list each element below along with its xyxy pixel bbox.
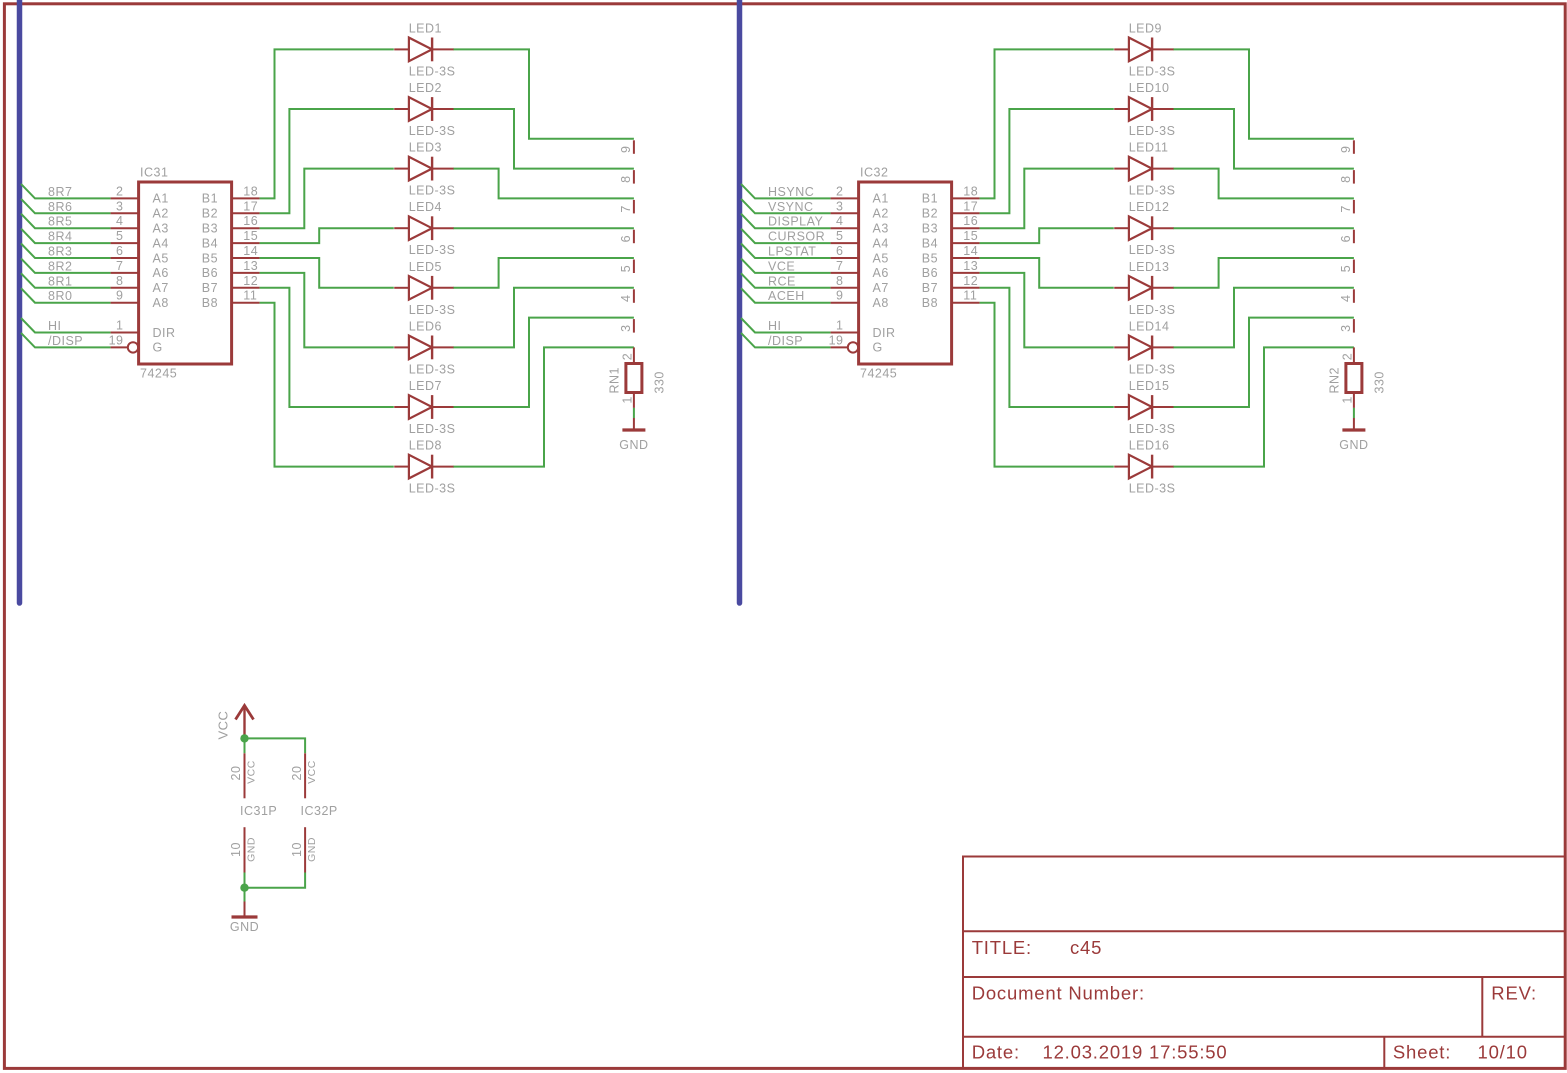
wire net 8R1 from bus to IC31 [21, 273, 111, 288]
svg-text:10/10: 10/10 [1478, 1042, 1528, 1063]
LED LED6 (LED-3S) [394, 336, 454, 360]
svg-text:LED-3S: LED-3S [409, 124, 456, 138]
svg-text:1: 1 [1341, 396, 1355, 403]
svg-text:9: 9 [116, 289, 123, 303]
svg-text:13: 13 [963, 259, 978, 273]
wire LED3 cathode to RN1 pin 7 [454, 169, 634, 199]
LED LED11 (LED-3S) [1114, 157, 1174, 181]
svg-text:14: 14 [963, 244, 978, 258]
svg-text:VCC: VCC [245, 760, 257, 784]
wire LED6 cathode to RN1 pin 4 [454, 288, 634, 348]
wire LED10 cathode to RN2 pin 8 [1174, 109, 1354, 169]
svg-text:GND: GND [230, 920, 259, 934]
svg-text:19: 19 [829, 333, 844, 347]
wire LED14 cathode to RN2 pin 4 [1174, 288, 1354, 348]
LED LED12 (LED-3S) [1114, 216, 1174, 240]
svg-text:8R4: 8R4 [48, 230, 72, 244]
svg-text:330: 330 [1373, 371, 1387, 393]
svg-text:LED-3S: LED-3S [1129, 64, 1176, 78]
RN2 pin 6 stub [1339, 230, 1354, 244]
svg-text:13: 13 [243, 259, 258, 273]
wire net 8R6 from bus to IC31 [21, 199, 111, 214]
svg-text:3: 3 [836, 199, 843, 213]
svg-text:20: 20 [290, 766, 304, 781]
svg-text:2: 2 [621, 353, 635, 360]
ground symbol GND at RN2 [1339, 418, 1368, 452]
svg-text:1: 1 [621, 396, 635, 403]
wire IC32 B5 to LED13 anode [980, 258, 1114, 288]
wire RN2 pin 1 to GND [1353, 408, 1355, 418]
wire net /DISP from bus to IC32 [741, 333, 831, 348]
wire RN1 pin 1 to GND [633, 408, 635, 418]
svg-text:12: 12 [963, 274, 978, 288]
svg-text:5: 5 [1339, 265, 1353, 272]
LED LED8 (LED-3S) [394, 455, 454, 479]
IC31 pin 1 (DIR) [111, 319, 176, 340]
RN2 pin 3 stub [1339, 319, 1354, 333]
IC32 pin 16 (B3) [922, 214, 980, 235]
svg-text:10: 10 [290, 842, 304, 857]
IC31 pin 9 (A8) [111, 289, 169, 310]
IC32 pin 4 (A3) [831, 214, 889, 235]
svg-text:LED-3S: LED-3S [1129, 124, 1176, 138]
title block Sheet divider [1383, 1037, 1385, 1069]
wire LED2 cathode to RN1 pin 8 [454, 109, 634, 169]
svg-text:VCC: VCC [216, 711, 231, 740]
title block row separator 2 [963, 976, 1565, 978]
ground symbol GND at RN1 [619, 418, 648, 452]
RN2 pin 2 lead [1341, 347, 1355, 363]
svg-text:VCC: VCC [306, 760, 318, 784]
RN1 pin 5 stub [619, 260, 634, 274]
IC31 pin 15 (B4) [202, 229, 260, 250]
wire net HI from bus to IC32 [741, 318, 831, 333]
svg-text:6: 6 [619, 235, 633, 242]
wire IC31 B5 to LED5 anode [260, 258, 394, 288]
svg-text:B4: B4 [922, 236, 938, 250]
wire net 8R4 from bus to IC31 [21, 229, 111, 244]
LED LED2 (LED-3S) [394, 97, 454, 121]
IC31 pin 12 (B7) [202, 274, 260, 295]
svg-text:DIR: DIR [153, 326, 176, 340]
wire net 8R0 from bus to IC31 [21, 288, 111, 303]
svg-text:RN2: RN2 [1328, 367, 1342, 394]
wire net HSYNC from bus to IC32 [741, 184, 831, 199]
svg-text:A7: A7 [153, 281, 169, 295]
svg-text:LED-3S: LED-3S [1129, 482, 1176, 496]
title block outer frame [963, 857, 1565, 1069]
svg-text:DISPLAY: DISPLAY [768, 215, 824, 229]
svg-text:3: 3 [116, 199, 123, 213]
wire net DISPLAY from bus to IC32 [741, 214, 831, 229]
IC32 pin 9 (A8) [831, 289, 889, 310]
svg-text:LED7: LED7 [409, 379, 442, 393]
svg-text:LED11: LED11 [1129, 141, 1169, 155]
IC32 pin 7 (A6) [831, 259, 889, 280]
svg-text:20: 20 [229, 766, 243, 781]
svg-text:/DISP: /DISP [48, 334, 83, 348]
svg-text:8R7: 8R7 [48, 185, 72, 199]
svg-text:A1: A1 [153, 192, 169, 206]
wire IC32 B2 to LED10 anode [980, 109, 1114, 213]
svg-text:9: 9 [619, 146, 633, 153]
RN1 pin 4 stub [619, 289, 634, 303]
svg-text:1: 1 [116, 319, 123, 333]
junction dot GND node [240, 884, 248, 892]
svg-text:15: 15 [243, 229, 258, 243]
LED LED3 (LED-3S) [394, 157, 454, 181]
IC31 pin 5 (A4) [111, 229, 169, 250]
IC31P GND pin (10) [229, 827, 257, 872]
svg-text:TITLE:: TITLE: [972, 937, 1032, 958]
wire IC31 B7 to LED7 anode [260, 288, 394, 407]
svg-text:LED-3S: LED-3S [1129, 303, 1176, 317]
svg-text:17: 17 [243, 199, 258, 213]
svg-text:LED13: LED13 [1129, 260, 1170, 274]
svg-text:LED12: LED12 [1129, 200, 1170, 214]
svg-text:LED-3S: LED-3S [1129, 184, 1176, 198]
svg-text:11: 11 [963, 289, 977, 303]
svg-text:LED10: LED10 [1129, 81, 1170, 95]
svg-text:8R2: 8R2 [48, 259, 72, 273]
svg-text:A2: A2 [153, 207, 169, 221]
wire VCC node to IC31P VCC pin [244, 738, 246, 753]
svg-text:A3: A3 [873, 222, 889, 236]
wire LED11 cathode to RN2 pin 7 [1174, 169, 1354, 199]
svg-text:A2: A2 [873, 207, 889, 221]
svg-text:8R5: 8R5 [48, 215, 72, 229]
svg-text:VSYNC: VSYNC [768, 200, 814, 214]
svg-text:8R0: 8R0 [48, 289, 72, 303]
svg-text:ACEH: ACEH [768, 289, 805, 303]
svg-text:LED-3S: LED-3S [409, 362, 456, 376]
svg-text:Sheet:: Sheet: [1393, 1042, 1451, 1063]
svg-text:A1: A1 [873, 192, 889, 206]
IC32 pin 2 (A1) [831, 184, 889, 205]
wire IC31 B3 to LED3 anode [260, 169, 394, 229]
svg-text:8R6: 8R6 [48, 200, 72, 214]
IC31 pin 7 (A6) [111, 259, 169, 280]
svg-text:19: 19 [109, 333, 124, 347]
bus IC31 input bus [17, 0, 23, 603]
svg-text:4: 4 [836, 214, 843, 228]
IC32 pin 12 (B7) [922, 274, 980, 295]
IC32 pin 13 (B6) [922, 259, 980, 280]
wire LED12 cathode to RN2 pin 6 [1174, 227, 1354, 229]
svg-text:8: 8 [116, 274, 123, 288]
svg-text:Date:: Date: [972, 1042, 1020, 1063]
wire IC32P GND pin to GND node [245, 873, 306, 888]
wire IC32 B8 to LED16 anode [980, 303, 1114, 467]
wire net HI from bus to IC31 [21, 318, 111, 333]
svg-text:B5: B5 [922, 251, 938, 265]
svg-text:A6: A6 [153, 266, 169, 280]
svg-text:LED16: LED16 [1129, 439, 1170, 453]
svg-text:7: 7 [1339, 205, 1353, 212]
svg-text:8: 8 [1339, 175, 1353, 182]
RN1 pin 9 stub [619, 140, 634, 154]
RN2 pin 9 stub [1339, 140, 1354, 154]
svg-text:CURSOR: CURSOR [768, 230, 825, 244]
IC31 pin 3 (A2) [111, 199, 169, 220]
svg-text:G: G [873, 341, 883, 355]
RN1 pin 3 stub [619, 319, 634, 333]
bus IC32 input bus [737, 0, 743, 603]
RN2 pin 8 stub [1339, 170, 1354, 184]
IC32 pin 1 (DIR) [831, 319, 896, 340]
wire IC32 B4 to LED12 anode [980, 228, 1114, 243]
svg-text:B8: B8 [202, 296, 218, 310]
wire net 8R7 from bus to IC31 [21, 184, 111, 199]
IC32P GND pin (10) [290, 827, 318, 872]
svg-text:6: 6 [1339, 235, 1353, 242]
svg-text:2: 2 [116, 184, 123, 198]
svg-text:G: G [153, 341, 163, 355]
IC31 pin 4 (A3) [111, 214, 169, 235]
svg-text:GND: GND [1339, 438, 1368, 452]
wire IC31 B4 to LED4 anode [260, 228, 394, 243]
svg-text:A4: A4 [153, 236, 169, 250]
title block row separator 1 [963, 930, 1565, 932]
IC31 pin 16 (B3) [202, 214, 260, 235]
wire net 8R5 from bus to IC31 [21, 214, 111, 229]
IC32P VCC pin (20) [290, 753, 318, 798]
IC31 pin 19 (G) with inversion bubble [109, 333, 163, 354]
svg-text:2: 2 [1341, 353, 1355, 360]
svg-text:16: 16 [963, 214, 978, 228]
svg-text:B4: B4 [202, 236, 218, 250]
RN1 pin 7 stub [619, 200, 634, 214]
svg-text:15: 15 [963, 229, 978, 243]
svg-text:LED-3S: LED-3S [409, 243, 456, 257]
wire VCC node to IC32P VCC pin [245, 738, 306, 753]
svg-text:GND: GND [245, 837, 257, 862]
junction dot VCC node [240, 734, 248, 742]
wire IC32 B7 to LED15 anode [980, 288, 1114, 407]
LED LED7 (LED-3S) [394, 395, 454, 419]
svg-text:B6: B6 [922, 266, 938, 280]
IC31P VCC pin (20) [229, 753, 257, 798]
resistor network RN2 body [1346, 364, 1362, 393]
svg-text:IC32: IC32 [860, 166, 888, 180]
LED LED14 (LED-3S) [1114, 336, 1174, 360]
svg-text:8: 8 [619, 175, 633, 182]
svg-text:A8: A8 [153, 296, 169, 310]
svg-text:5: 5 [116, 229, 123, 243]
svg-text:DIR: DIR [873, 326, 896, 340]
title block row separator 3 [963, 1036, 1565, 1038]
svg-text:74245: 74245 [860, 367, 897, 381]
svg-text:A5: A5 [873, 251, 889, 265]
svg-text:LED-3S: LED-3S [1129, 422, 1176, 436]
IC31 pin 2 (A1) [111, 184, 169, 205]
wire LED13 cathode to RN2 pin 5 [1174, 258, 1354, 288]
IC31 pin 14 (B5) [202, 244, 260, 265]
svg-text:B1: B1 [922, 192, 938, 206]
svg-text:6: 6 [836, 244, 843, 258]
svg-text:LED6: LED6 [409, 319, 442, 333]
svg-text:LED14: LED14 [1129, 319, 1170, 333]
RN2 pin 4 stub [1339, 289, 1354, 303]
svg-text:B1: B1 [202, 192, 218, 206]
svg-text:LED8: LED8 [409, 439, 442, 453]
svg-text:A5: A5 [153, 251, 169, 265]
wire LED1 cathode to RN1 pin 9 [454, 49, 634, 138]
wire net 8R2 from bus to IC31 [21, 258, 111, 273]
RN2 pin 7 stub [1339, 200, 1354, 214]
svg-text:Document Number:: Document Number: [972, 983, 1145, 1004]
svg-text:5: 5 [619, 265, 633, 272]
svg-text:8: 8 [836, 274, 843, 288]
svg-text:7: 7 [116, 259, 123, 273]
svg-text:LED-3S: LED-3S [409, 482, 456, 496]
svg-text:HSYNC: HSYNC [768, 185, 814, 199]
svg-text:17: 17 [963, 199, 978, 213]
RN2 pin 5 stub [1339, 260, 1354, 274]
svg-text:B3: B3 [922, 222, 938, 236]
svg-text:LED-3S: LED-3S [409, 64, 456, 78]
svg-text:B2: B2 [922, 207, 938, 221]
svg-text:5: 5 [836, 229, 843, 243]
wire net 8R3 from bus to IC31 [21, 244, 111, 259]
svg-text:12.03.2019 17:55:50: 12.03.2019 17:55:50 [1043, 1042, 1228, 1063]
svg-text:A7: A7 [873, 281, 889, 295]
RN1 pin 2 lead [621, 347, 635, 363]
LED LED5 (LED-3S) [394, 276, 454, 300]
IC32 pin 5 (A4) [831, 229, 889, 250]
svg-text:A6: A6 [873, 266, 889, 280]
svg-text:c45: c45 [1070, 937, 1102, 958]
svg-text:B7: B7 [202, 281, 218, 295]
wire IC32 B3 to LED11 anode [980, 169, 1114, 229]
svg-text:9: 9 [836, 289, 843, 303]
svg-text:LED-3S: LED-3S [409, 422, 456, 436]
svg-text:LED1: LED1 [409, 21, 442, 35]
svg-text:3: 3 [1339, 324, 1353, 331]
RN1 pin 8 stub [619, 170, 634, 184]
wire net VSYNC from bus to IC32 [741, 199, 831, 214]
svg-text:RN1: RN1 [608, 367, 622, 394]
svg-text:IC32P: IC32P [301, 804, 338, 818]
LED LED4 (LED-3S) [394, 216, 454, 240]
svg-text:/DISP: /DISP [768, 334, 803, 348]
svg-text:VCE: VCE [768, 259, 795, 273]
svg-text:16: 16 [243, 214, 258, 228]
svg-text:REV:: REV: [1491, 983, 1537, 1004]
wire IC31P GND pin to GND node [244, 873, 246, 888]
LED LED15 (LED-3S) [1114, 395, 1174, 419]
wire LED4 cathode to RN1 pin 6 [454, 227, 634, 229]
LED LED1 (LED-3S) [394, 38, 454, 62]
svg-text:LED-3S: LED-3S [409, 184, 456, 198]
svg-text:B7: B7 [922, 281, 938, 295]
svg-text:6: 6 [116, 244, 123, 258]
svg-text:1: 1 [836, 319, 843, 333]
svg-text:IC31: IC31 [140, 166, 168, 180]
svg-text:HI: HI [48, 319, 62, 333]
LED LED13 (LED-3S) [1114, 276, 1174, 300]
svg-text:2: 2 [836, 184, 843, 198]
wire net RCE from bus to IC32 [741, 273, 831, 288]
wire IC31 B8 to LED8 anode [260, 303, 394, 467]
IC31 pin 18 (B1) [202, 184, 260, 205]
IC32 pin 15 (B4) [922, 229, 980, 250]
wire net CURSOR from bus to IC32 [741, 229, 831, 244]
wire net LPSTAT from bus to IC32 [741, 244, 831, 259]
title block REV divider [1481, 977, 1483, 1037]
svg-text:B3: B3 [202, 222, 218, 236]
wire IC31 B2 to LED2 anode [260, 109, 394, 213]
svg-text:9: 9 [1339, 146, 1353, 153]
svg-text:4: 4 [1339, 295, 1353, 302]
svg-text:14: 14 [243, 244, 258, 258]
resistor network RN1 body [626, 364, 642, 393]
IC32 pin 18 (B1) [922, 184, 980, 205]
svg-text:LED3: LED3 [409, 141, 442, 155]
svg-text:A3: A3 [153, 222, 169, 236]
IC32 pin 17 (B2) [922, 199, 980, 220]
svg-text:LED4: LED4 [409, 200, 442, 214]
svg-text:GND: GND [619, 438, 648, 452]
LED LED10 (LED-3S) [1114, 97, 1174, 121]
ground symbol GND at power section [230, 902, 259, 935]
svg-text:7: 7 [619, 205, 633, 212]
svg-text:12: 12 [243, 274, 258, 288]
svg-text:330: 330 [653, 371, 667, 393]
wire LED9 cathode to RN2 pin 9 [1174, 49, 1354, 138]
svg-text:18: 18 [243, 184, 258, 198]
IC31 pin 17 (B2) [202, 199, 260, 220]
RN2 pin 1 lead [1341, 393, 1355, 408]
svg-text:LED-3S: LED-3S [1129, 362, 1176, 376]
LED LED16 (LED-3S) [1114, 455, 1174, 479]
svg-text:10: 10 [229, 842, 243, 857]
svg-text:LED5: LED5 [409, 260, 442, 274]
svg-text:LED-3S: LED-3S [1129, 243, 1176, 257]
svg-text:RCE: RCE [768, 274, 796, 288]
svg-text:B8: B8 [922, 296, 938, 310]
wire net ACEH from bus to IC32 [741, 288, 831, 303]
svg-text:4: 4 [116, 214, 123, 228]
svg-text:LED-3S: LED-3S [409, 303, 456, 317]
IC IC31 74245 body [139, 182, 232, 364]
IC32 pin 19 (G) with inversion bubble [829, 333, 883, 354]
svg-text:IC31P: IC31P [240, 804, 277, 818]
svg-text:8R3: 8R3 [48, 245, 72, 259]
svg-text:18: 18 [963, 184, 978, 198]
svg-text:B5: B5 [202, 251, 218, 265]
wire IC32 B1 to LED9 anode [980, 49, 1114, 198]
svg-text:HI: HI [768, 319, 782, 333]
wire net /DISP from bus to IC31 [21, 333, 111, 348]
IC31 pin 13 (B6) [202, 259, 260, 280]
svg-text:LED2: LED2 [409, 81, 442, 95]
wire GND node to ground symbol [244, 888, 246, 902]
wire LED7 cathode to RN1 pin 3 [454, 318, 634, 407]
wire IC31 B6 to LED6 anode [260, 273, 394, 348]
svg-text:8R1: 8R1 [48, 274, 72, 288]
svg-text:74245: 74245 [140, 367, 177, 381]
IC32 pin 14 (B5) [922, 244, 980, 265]
svg-text:7: 7 [836, 259, 843, 273]
IC32 pin 11 (B8) [922, 289, 980, 310]
svg-text:4: 4 [619, 295, 633, 302]
wire LED5 cathode to RN1 pin 5 [454, 258, 634, 288]
IC31 pin 8 (A7) [111, 274, 169, 295]
wire LED15 cathode to RN2 pin 3 [1174, 318, 1354, 407]
IC32 pin 3 (A2) [831, 199, 889, 220]
wire net VCE from bus to IC32 [741, 258, 831, 273]
